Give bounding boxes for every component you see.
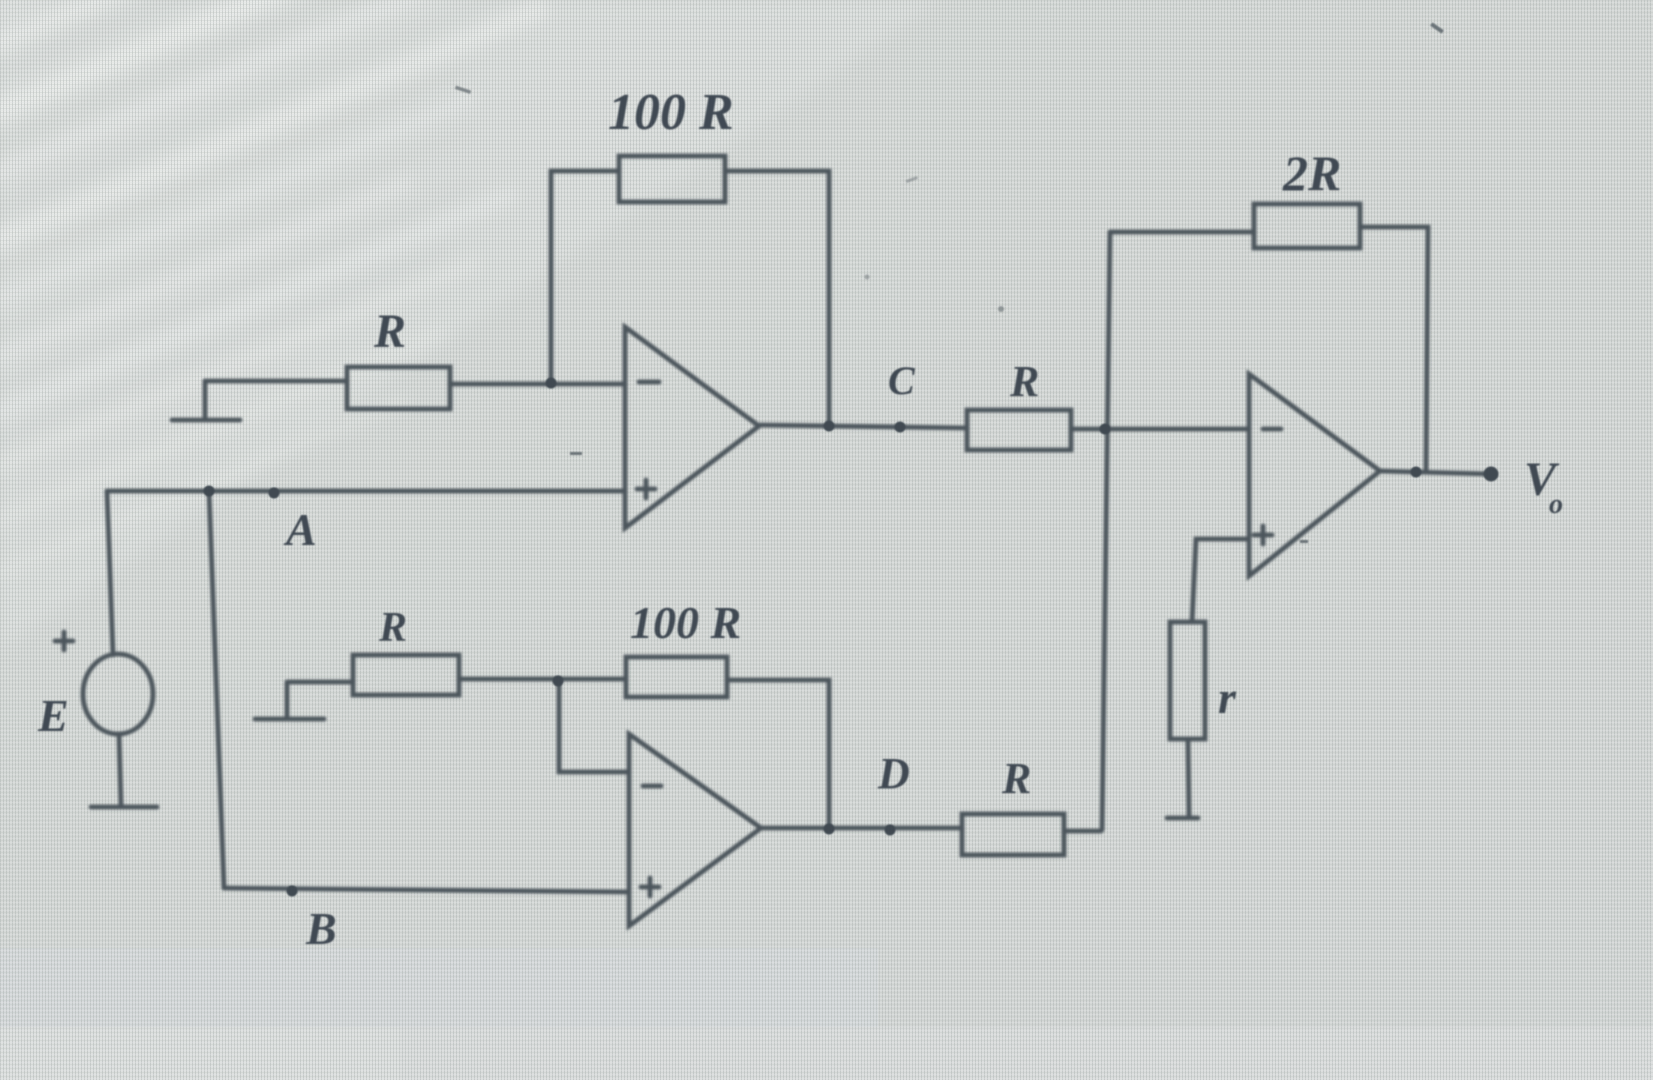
svg-text:100 R: 100 R — [630, 597, 741, 648]
svg-text:R: R — [373, 305, 406, 358]
svg-text:D: D — [877, 749, 910, 798]
svg-text:C: C — [888, 358, 916, 403]
svg-text:R: R — [378, 605, 407, 651]
svg-text:r: r — [1218, 672, 1237, 723]
svg-text:E: E — [37, 690, 69, 741]
svg-text:2R: 2R — [1282, 145, 1341, 201]
svg-text:R: R — [1001, 754, 1031, 803]
svg-text:100 R: 100 R — [608, 84, 734, 141]
svg-text:R: R — [1009, 357, 1039, 406]
svg-text:o: o — [1549, 489, 1563, 520]
svg-text:A: A — [283, 504, 317, 555]
svg-text:B: B — [305, 903, 337, 954]
